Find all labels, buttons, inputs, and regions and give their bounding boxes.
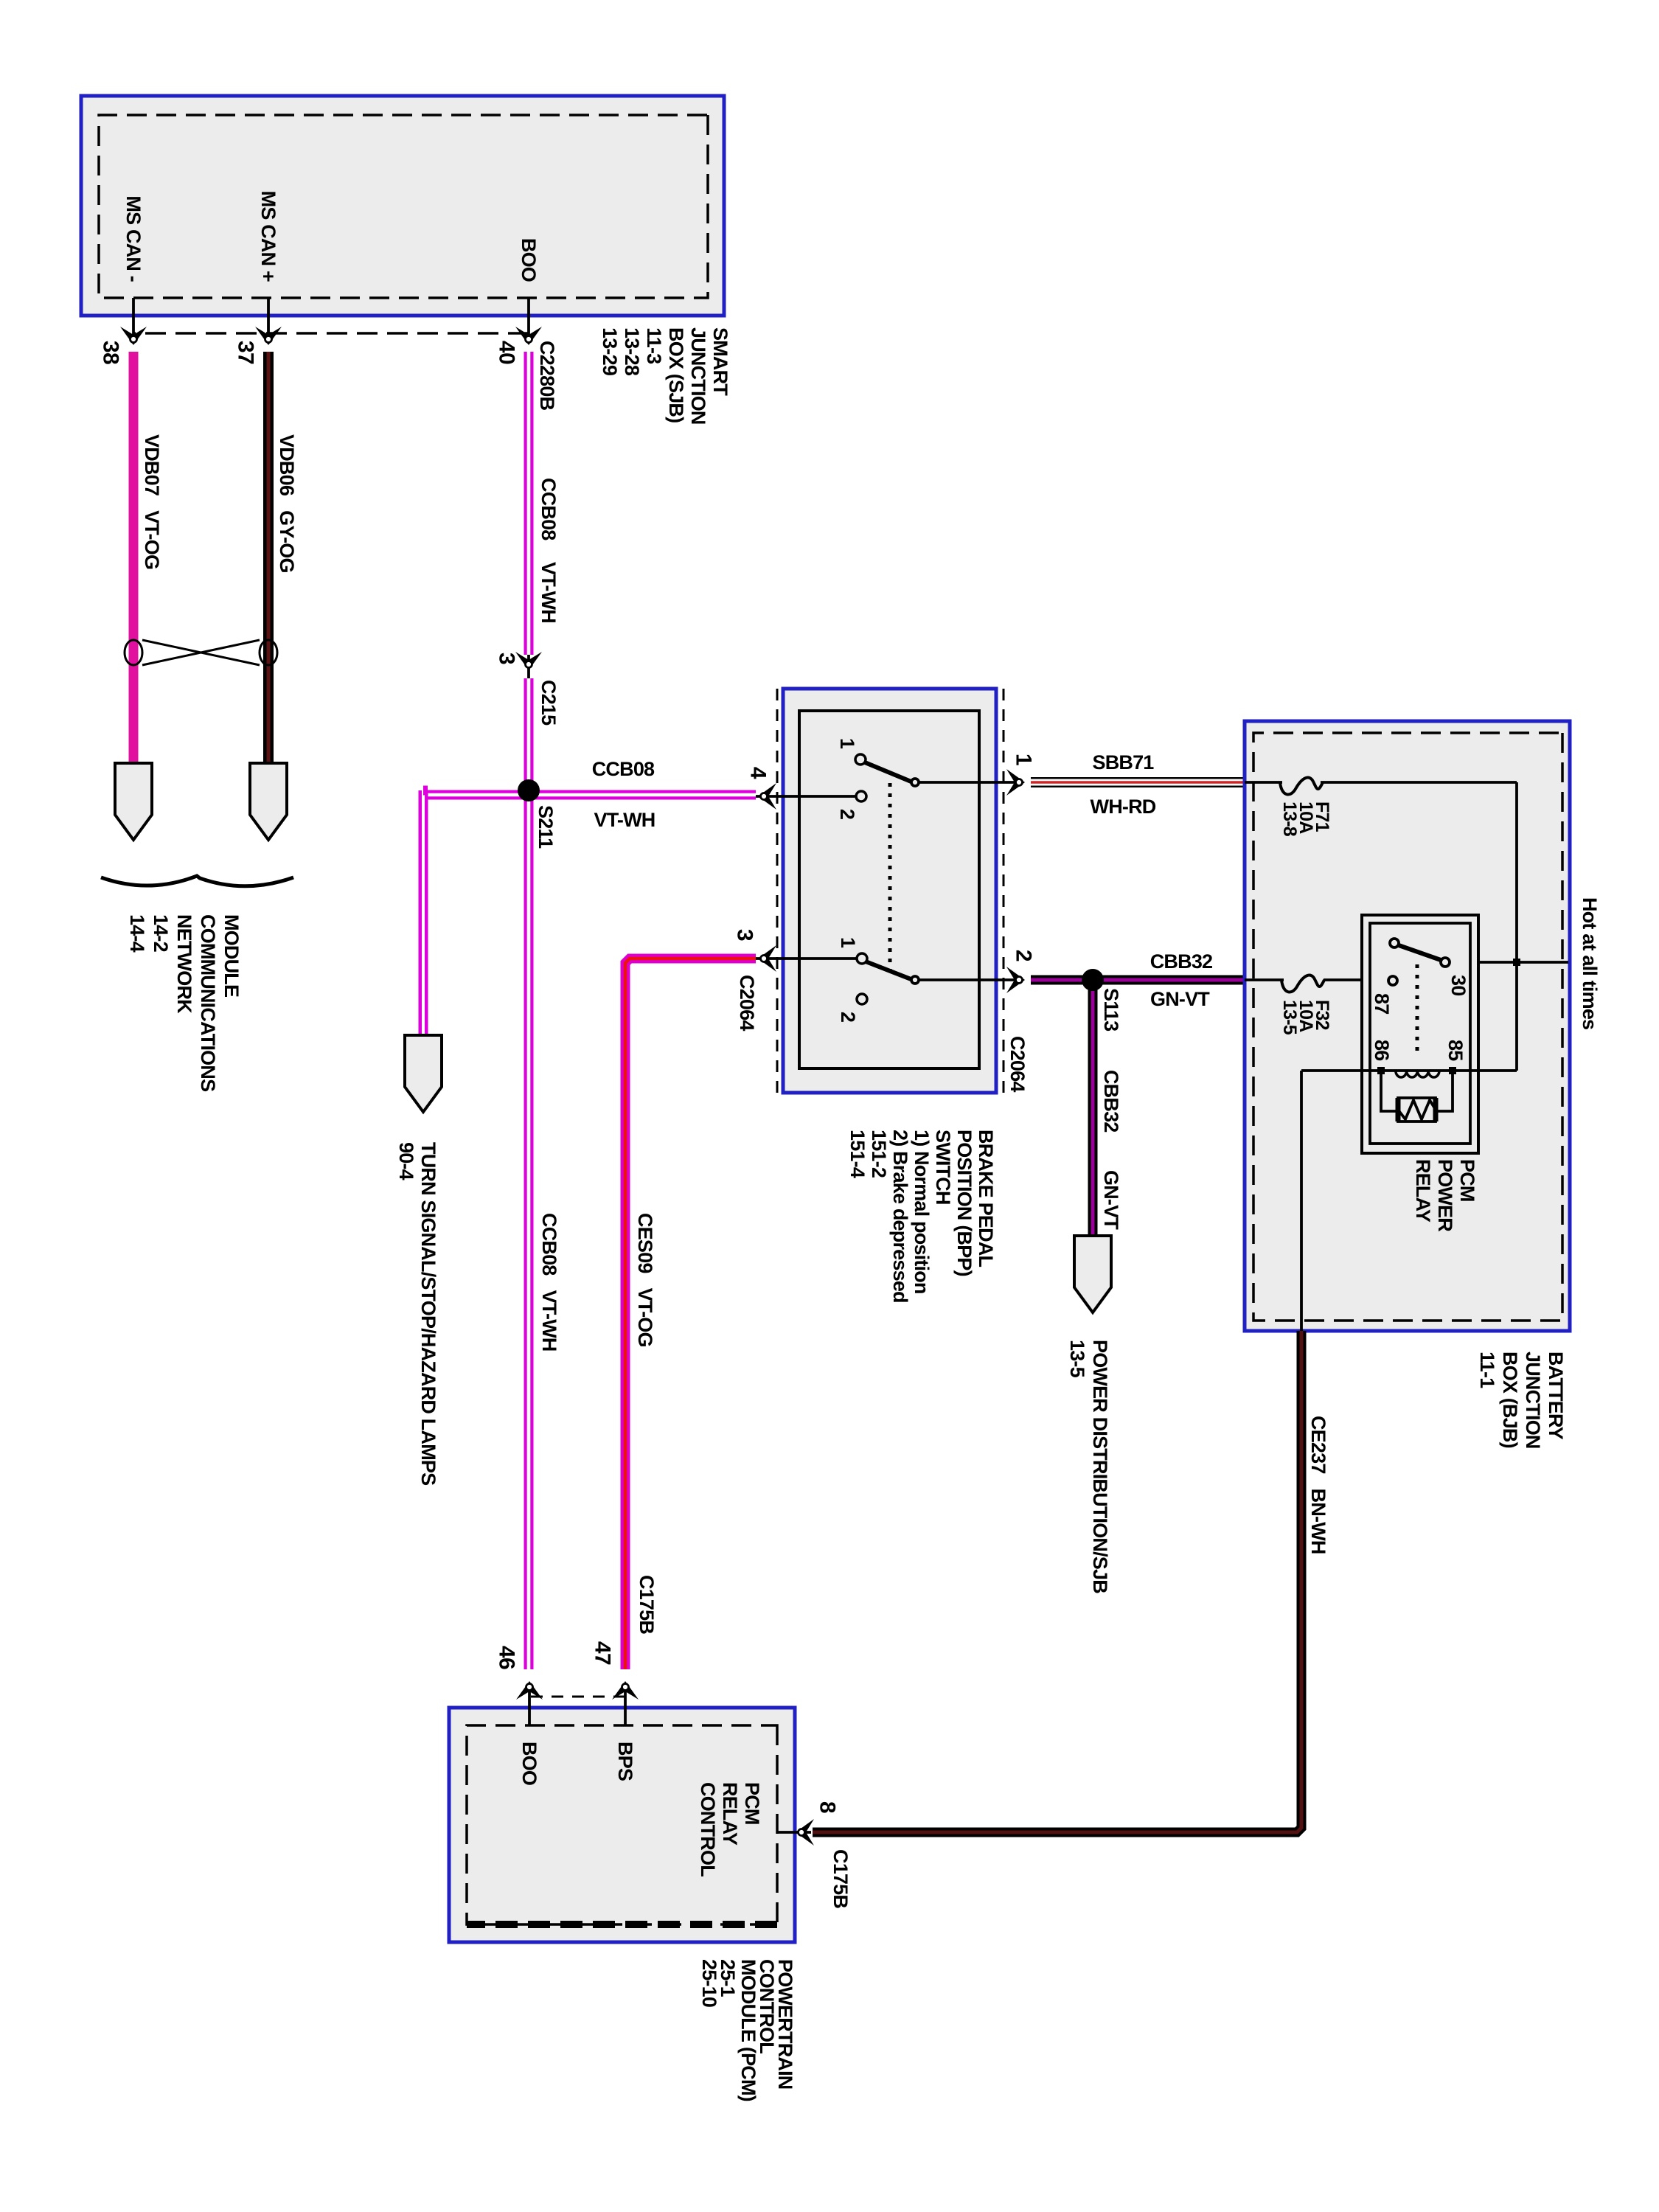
svg-text:8: 8 [815, 1801, 840, 1813]
switch linkage dotted line [888, 783, 892, 979]
wire F32 fuse leads [1245, 978, 1284, 981]
svg-text:90-4: 90-4 [395, 1142, 417, 1180]
svg-text:POWER: POWER [1434, 1159, 1456, 1231]
svg-text:NETWORK: NETWORK [173, 914, 195, 1014]
relay lever [1399, 945, 1441, 960]
svg-text:RELAY: RELAY [719, 1782, 741, 1846]
svg-text:CE237 BN-WH: CE237 BN-WH [1307, 1416, 1329, 1554]
label POWER DISTRIBUTION/SJB 13-5 [1066, 1340, 1111, 1593]
svg-text:VDB06 GY-OG: VDB06 GY-OG [276, 434, 298, 573]
svg-text:POWER DISTRIBUTION/SJB: POWER DISTRIBUTION/SJB [1089, 1340, 1111, 1593]
svg-text:2: 2 [1012, 950, 1036, 961]
box: BRAKE PEDAL POSITION (BPP) SWITCH [783, 689, 996, 1093]
fuse F71 [1280, 778, 1323, 795]
connector arrow BPP pin 4 (down) [758, 783, 776, 810]
svg-text:C2064: C2064 [1006, 1036, 1029, 1092]
connector arrow BPP pin 3 (down) [758, 945, 776, 972]
svg-text:13-5: 13-5 [1066, 1340, 1088, 1378]
svg-text:SBB71: SBB71 [1092, 751, 1154, 773]
label PCM POWER RELAY [1412, 1159, 1478, 1231]
connector arrow C215 pin 3 [515, 652, 542, 678]
label SMART JUNCTION BOX (SJB) 11-3 13-28 13-29 [599, 327, 731, 425]
wire VDB06 GY-OG (MS CAN +) [263, 352, 274, 765]
wire stub SJB pin 40 [527, 298, 530, 344]
connector arrow pin 40 [515, 327, 542, 345]
wire 86 to BJB edge [1300, 1071, 1303, 1331]
brace bracket [101, 876, 293, 886]
svg-text:11-1: 11-1 [1476, 1352, 1498, 1388]
svg-text:CBB32: CBB32 [1150, 950, 1213, 973]
svg-text:BOO: BOO [518, 1742, 540, 1785]
svg-text:87: 87 [1371, 993, 1393, 1014]
wire CBB32 GN-VT (S113 to power distribution) [1088, 980, 1098, 1236]
relay common contact [1390, 939, 1399, 947]
svg-text:CONTROL: CONTROL [697, 1782, 719, 1877]
svg-text:BATTERY: BATTERY [1545, 1352, 1567, 1440]
svg-text:3: 3 [733, 929, 757, 941]
svg-text:BPS: BPS [614, 1742, 636, 1781]
switch A contact 2 [856, 791, 866, 801]
svg-text:PCM: PCM [741, 1782, 763, 1825]
splice S113 [1082, 969, 1104, 991]
svg-text:25-10: 25-10 [698, 1959, 720, 2007]
svg-text:2: 2 [837, 1012, 859, 1022]
switch B contact 2 [857, 994, 867, 1004]
label BRAKE PEDAL POSITION (BPP) SWITCH [846, 1130, 997, 1303]
junction squares coil [1449, 1067, 1456, 1074]
svg-text:VDB07 VT-OG: VDB07 VT-OG [141, 434, 163, 569]
svg-text:C175B: C175B [829, 1849, 852, 1908]
connector arrow pin 37 [255, 327, 282, 345]
svg-text:PCM: PCM [1456, 1159, 1478, 1202]
svg-text:WH-RD: WH-RD [1091, 796, 1156, 818]
svg-text:14-2: 14-2 [150, 914, 172, 952]
svg-text:S211: S211 [535, 805, 557, 849]
svg-text:JUNCTION: JUNCTION [687, 327, 709, 425]
svg-text:MS CAN +: MS CAN + [257, 191, 279, 282]
twisted pair symbol [125, 640, 277, 665]
label TURN SIGNAL/STOP/HAZARD LAMPS 90-4 [395, 1142, 439, 1485]
svg-text:13-29: 13-29 [599, 327, 621, 376]
svg-text:151-4: 151-4 [846, 1130, 869, 1178]
relay coil humps [1396, 1071, 1439, 1077]
wire CE237 BN-WH (BJB to PCM pin 8) [813, 1331, 1301, 1832]
connector arrow PCM pin 46 (left) [516, 1681, 543, 1725]
svg-text:46: 46 [495, 1646, 519, 1669]
svg-text:CCB08: CCB08 [592, 758, 655, 780]
wire F71 to relay pin 30 feed [1515, 782, 1518, 1071]
switch B contact 1 line to pin 3 [756, 957, 857, 960]
label POWERTRAIN CONTROL MODULE (PCM) 25-1 25-10 [698, 1959, 796, 2101]
svg-text:11-3: 11-3 [643, 327, 665, 364]
resistor leads [1436, 1071, 1453, 1111]
svg-text:3: 3 [495, 653, 519, 664]
switch B pivot [911, 976, 919, 984]
connector pentagon turn signal [405, 1035, 442, 1112]
wire F71 fuse leads [1245, 781, 1282, 784]
svg-text:MODULE (PCM): MODULE (PCM) [737, 1959, 759, 2101]
svg-text:BOX (SJB): BOX (SJB) [665, 327, 687, 422]
switch B pole line to pin 2 [919, 978, 1020, 981]
svg-text:37: 37 [234, 341, 258, 364]
svg-text:85: 85 [1444, 1040, 1467, 1061]
relay coil line [1301, 1069, 1517, 1072]
svg-text:C2064: C2064 [736, 975, 758, 1031]
relay dotted link [1416, 964, 1419, 1057]
box: POWERTRAIN CONTROL MODULE (PCM) [449, 1708, 795, 1942]
wire hot feed to relay pin 30 [1450, 961, 1568, 964]
svg-text:S113: S113 [1100, 988, 1122, 1032]
splice S211 [518, 779, 540, 801]
switch A pole line to pin 1 [919, 781, 1020, 784]
connector pentagon MS CAN + [250, 763, 287, 840]
svg-text:13-5: 13-5 [1279, 1000, 1300, 1035]
svg-text:MODULE: MODULE [220, 914, 243, 997]
resistor box with zigzag [1398, 1098, 1436, 1121]
fuse label F71 10A 13-8 [1279, 801, 1332, 837]
svg-text:POSITION (BPP): POSITION (BPP) [953, 1130, 975, 1276]
svg-text:Hot at all times: Hot at all times [1579, 897, 1601, 1029]
svg-text:38: 38 [99, 341, 123, 364]
svg-text:86: 86 [1371, 1040, 1393, 1061]
switch B contact 1 [857, 953, 867, 964]
svg-text:1: 1 [836, 738, 858, 749]
box: SMART JUNCTION BOX (SJB) [81, 96, 724, 316]
fuse F32 [1281, 975, 1324, 992]
svg-text:VT-WH: VT-WH [538, 562, 560, 623]
relay contact 30 [1441, 958, 1450, 967]
wire CCB08 VT-WH (S211 to PCM pin 46) [524, 790, 534, 1669]
svg-text:30: 30 [1447, 975, 1470, 995]
label MODULE COMMUNICATIONS NETWORK 14-2 14-4 [126, 914, 243, 1091]
svg-text:C175B: C175B [636, 1575, 658, 1634]
svg-text:C215: C215 [538, 680, 560, 726]
svg-text:C2280B: C2280B [536, 341, 558, 411]
switch A lever [865, 762, 913, 782]
svg-text:13-28: 13-28 [621, 327, 643, 376]
svg-text:1: 1 [837, 937, 859, 948]
svg-text:RELAY: RELAY [1412, 1159, 1434, 1222]
switch A pivot [911, 779, 919, 786]
svg-text:CES09 VT-OG: CES09 VT-OG [634, 1213, 656, 1347]
svg-text:CCB08: CCB08 [538, 478, 560, 540]
relay contact 87 [1388, 976, 1397, 985]
svg-text:SWITCH: SWITCH [932, 1130, 954, 1205]
connector arrow BPP pin 2 (up) [1006, 967, 1025, 993]
svg-text:TURN SIGNAL/STOP/HAZARD LAMPS: TURN SIGNAL/STOP/HAZARD LAMPS [417, 1142, 439, 1485]
junction dot [1513, 959, 1520, 966]
fuse label F32 10A 13-5 [1279, 1000, 1332, 1035]
wire CCB08 VT-WH (BOO main run, SJB to C215) [524, 352, 534, 655]
wire CCB08 branch S211 down [428, 790, 529, 800]
svg-text:14-4: 14-4 [126, 914, 148, 953]
connector C2064 dashed line (bottom) [776, 689, 779, 1093]
svg-text:BOX (BJB): BOX (BJB) [1499, 1352, 1521, 1448]
box: PCM POWER RELAY [1362, 915, 1478, 1153]
connector pentagon power distribution [1074, 1236, 1111, 1312]
svg-text:MS CAN -: MS CAN - [122, 195, 145, 282]
svg-text:JUNCTION: JUNCTION [1522, 1352, 1544, 1449]
wire SBB71 WH-RD (BPP pin 1 up to BJB) [1031, 777, 1245, 787]
wire CCB08 branch S211 up to BPP pin 4 [529, 790, 756, 800]
svg-text:SMART: SMART [709, 327, 731, 396]
svg-text:2: 2 [836, 809, 858, 819]
svg-text:COMMUNICATIONS: COMMUNICATIONS [197, 914, 219, 1091]
label PCM RELAY CONTROL [697, 1782, 763, 1877]
svg-text:CCB08 VT-WH: CCB08 VT-WH [538, 1213, 560, 1352]
wire CBB32 GN-VT (BPP pin 2 up to BJB) [1031, 975, 1245, 985]
connector C2064 dashed line (top) [1003, 689, 1005, 1093]
svg-text:GN-VT: GN-VT [1150, 988, 1210, 1010]
svg-text:13-8: 13-8 [1279, 801, 1300, 837]
wire CCB08 VT-WH (C215 to S211) [524, 678, 534, 790]
svg-text:CBB32: CBB32 [1100, 1070, 1122, 1133]
wire VDB07 VT-OG (MS CAN -) [129, 352, 139, 765]
svg-text:1: 1 [1012, 754, 1036, 765]
svg-text:1) Normal position: 1) Normal position [911, 1130, 933, 1294]
switch A contact 1 [855, 754, 866, 765]
connector C175B dashed line [529, 1696, 625, 1698]
svg-text:BOO: BOO [518, 238, 540, 282]
connector arrow pin 38 [120, 327, 147, 345]
connector arrow BPP pin 1 (up) [1006, 769, 1025, 796]
box: BATTERY JUNCTION BOX (BJB) [1245, 721, 1570, 1331]
svg-text:2) Brake depressed: 2) Brake depressed [889, 1130, 911, 1303]
label BATTERY JUNCTION BOX (BJB) 11-1 [1476, 1352, 1567, 1449]
svg-text:4: 4 [746, 767, 771, 779]
connector pentagon MS CAN - [115, 763, 152, 840]
switch A contact 2 line to pin 4 [756, 795, 856, 798]
wire stub SJB pin 37 [267, 298, 270, 344]
svg-text:47: 47 [591, 1641, 615, 1665]
svg-text:151-2: 151-2 [868, 1130, 890, 1178]
connector C2280B dashed line [133, 332, 529, 335]
connector arrow PCM pin 47 (left) [612, 1681, 639, 1725]
svg-text:VT-WH: VT-WH [594, 809, 655, 831]
svg-text:BRAKE PEDAL: BRAKE PEDAL [975, 1130, 997, 1267]
wire CES09 VT-OG (BPP pin 3 down and right to PCM pin 47) [625, 959, 756, 1669]
switch B lever [866, 961, 913, 980]
wire stub SJB pin 38 [132, 298, 135, 344]
wire CCB08 to turn signal lamps [423, 790, 428, 1035]
svg-text:GN-VT: GN-VT [1100, 1170, 1122, 1230]
svg-text:40: 40 [495, 341, 519, 364]
connector arrow PCM pin 8 (down) [777, 1819, 814, 1846]
